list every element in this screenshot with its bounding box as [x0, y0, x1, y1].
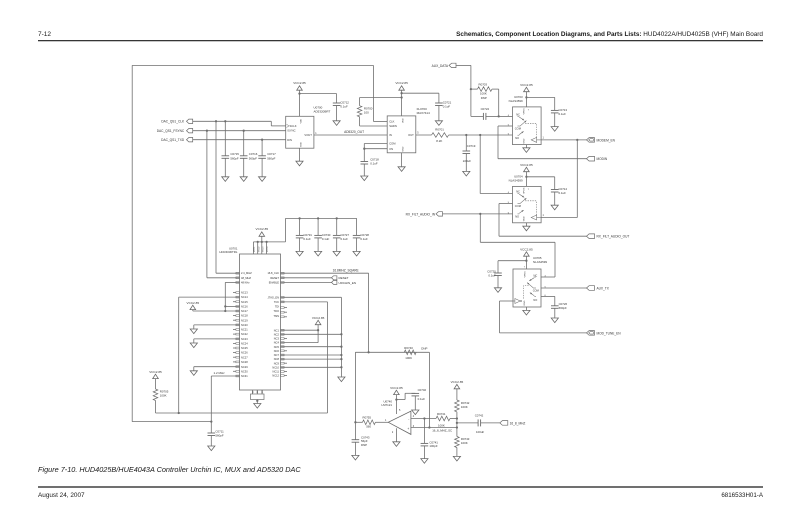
svg-text:48 KHz: 48 KHz [241, 280, 250, 284]
svg-text:GND: GND [524, 138, 526, 143]
ground under U0705 [525, 307, 527, 310]
svg-text:G2: G2 [257, 391, 259, 394]
ground under C0731 [296, 251, 303, 256]
svg-text:LM7121: LM7121 [382, 403, 393, 407]
svg-text:100uF: 100uF [476, 430, 484, 434]
connector RX_FILT_AUDIO_OUT [587, 234, 595, 239]
wire RX audio to U0705 NC [479, 214, 481, 242]
pin pads right column U0701 [281, 272, 284, 274]
capacitor C0711 [208, 432, 216, 434]
ground under C0726 [551, 318, 558, 323]
resistor R0700 [360, 97, 402, 99]
connector RESET [281, 277, 332, 279]
svg-text:C0740: C0740 [418, 388, 427, 392]
wire VCC bus over U0701 [253, 241, 285, 243]
ground under U0740 [395, 428, 397, 442]
svg-text:VCC2.85: VCC2.85 [256, 227, 269, 231]
wire feedback left leg [354, 352, 356, 422]
header rule [38, 40, 763, 42]
wire VCC branch to C0721 [402, 92, 439, 94]
svg-text:DIN: DIN [287, 138, 292, 142]
power VCC2.85 for U0705 [524, 252, 530, 256]
svg-text:VCC2.85: VCC2.85 [520, 83, 533, 87]
svg-text:TMS: TMS [274, 314, 280, 318]
svg-text:100K: 100K [461, 405, 468, 409]
svg-text:Figure 7-10. HUD4025B/HUE4043A: Figure 7-10. HUD4025B/HUE4043A Controlle… [38, 465, 301, 474]
svg-text:NC6: NC6 [274, 349, 280, 353]
svg-text:16.8MHZ_SQARE: 16.8MHZ_SQARE [333, 269, 359, 273]
svg-text:RESET: RESET [270, 276, 279, 280]
svg-text:VCC2.85: VCC2.85 [312, 316, 325, 320]
svg-text:VCC2.85: VCC2.85 [149, 370, 162, 374]
svg-text:VCC3: VCC3 [262, 246, 264, 252]
svg-text:C0722: C0722 [481, 107, 490, 111]
svg-text:NC11: NC11 [273, 370, 280, 374]
wire VCC branch to C0714 [526, 176, 554, 178]
svg-text:NC18: NC18 [241, 314, 248, 318]
power VCC2.85 for U0740 [394, 390, 400, 394]
svg-text:NC10: NC10 [272, 365, 279, 369]
wire NC20 no-connect arrow [194, 324, 240, 326]
svg-text:AD5320_OUT: AD5320_OUT [344, 130, 364, 134]
svg-text:G1: G1 [253, 391, 255, 394]
svg-text:R0741: R0741 [437, 412, 446, 416]
svg-text:VPOS: VPOS [524, 187, 526, 194]
svg-text:Schematics, Component Location: Schematics, Component Location Diagrams,… [456, 31, 763, 38]
svg-text:+: + [407, 427, 409, 431]
svg-text:HCR4030TRL: HCR4030TRL [219, 250, 238, 254]
svg-text:C0717: C0717 [267, 152, 276, 156]
capacitor C0740 [396, 399, 405, 401]
wire pullup rail [156, 412, 328, 414]
svg-text:AUX_DATA: AUX_DATA [432, 64, 449, 68]
svg-text:VDD: VDD [403, 118, 405, 123]
ground under C0715 [222, 177, 229, 182]
svg-text:R0740: R0740 [404, 346, 413, 350]
svg-text:NC9: NC9 [274, 361, 280, 365]
wire U0704 output up to MODEM_EN net [541, 217, 577, 219]
svg-text:NC4: NC4 [274, 341, 280, 345]
svg-text:NC27: NC27 [241, 355, 248, 359]
wire DAC_QS1_TXD row [193, 139, 286, 141]
svg-text:NC7: NC7 [274, 353, 280, 357]
svg-text:NO: NO [515, 136, 519, 140]
svg-text:100pF: 100pF [429, 444, 437, 448]
wire 16.8MHZ_SQARE drop [368, 273, 370, 352]
svg-text:NC28: NC28 [241, 360, 248, 364]
wire NC2 to bus [281, 333, 342, 335]
svg-text:0.1uF: 0.1uF [559, 112, 567, 116]
wire VCC branch to C0720 [498, 260, 526, 262]
svg-text:8.2K: 8.2K [436, 139, 442, 143]
ground under FL0700 [401, 153, 403, 167]
svg-text:16.8_CLK: 16.8_CLK [267, 271, 279, 275]
capacitor C0718 on COM/OS [364, 143, 387, 145]
svg-text:NC25: NC25 [241, 346, 248, 350]
capacitor C0715 [224, 121, 226, 156]
svg-text:560pF: 560pF [230, 157, 238, 161]
power VCC2.85 for FL0700 [399, 86, 405, 90]
svg-text:VDD: VDD [301, 118, 303, 123]
capacitor C0719 [465, 135, 467, 151]
capacitor C0728 [356, 218, 358, 235]
svg-text:R0703: R0703 [479, 83, 488, 87]
wire JTAG_EN to NC bus [281, 296, 342, 298]
svg-text:OUT: OUT [408, 133, 414, 137]
wire clock into CLK pin [372, 65, 374, 121]
wire DAC_QS1_CLK row [193, 120, 272, 122]
svg-text:NC16: NC16 [241, 305, 248, 309]
wire AD5320_OUT net [314, 134, 387, 136]
svg-text:C0719: C0719 [467, 144, 476, 148]
svg-text:16_8_MHZ: 16_8_MHZ [510, 421, 526, 425]
svg-text:NC30: NC30 [241, 369, 248, 373]
svg-text:NC26: NC26 [241, 351, 248, 355]
svg-text:COM: COM [515, 127, 521, 131]
svg-text:NC3: NC3 [274, 337, 280, 341]
wire U0704 COM loop to RX_FILT_AUDIO_OUT [499, 203, 513, 205]
wire R0700 to SHDN [360, 125, 388, 127]
connector MODEM_EN [587, 138, 595, 143]
node R0755 input [354, 421, 356, 423]
wire DAC_QS1_FSYNC row [193, 130, 286, 132]
svg-text:VPOS: VPOS [524, 108, 526, 115]
svg-text:0.1uF: 0.1uF [322, 237, 330, 241]
svg-text:TCK: TCK [274, 300, 279, 304]
pin pads left column U0701 [236, 272, 239, 274]
svg-text:DAC_QS1_TXD: DAC_QS1_TXD [161, 138, 185, 142]
wire SCLK jog [270, 121, 272, 126]
wire VCC branch to C0712 [300, 93, 337, 95]
power VCC2.85 at R0705 [153, 374, 159, 378]
ground under C0716 [240, 177, 247, 182]
svg-text:MAX7414: MAX7414 [417, 111, 431, 115]
capacitor C0743 [354, 422, 356, 439]
wire NC8 to bus [281, 358, 342, 360]
svg-text:2.4_MHZ: 2.4_MHZ [241, 271, 252, 275]
svg-text:NLAS4599: NLAS4599 [509, 99, 523, 103]
resistor R0741 [436, 416, 450, 421]
wire CLK drop to 2.4_MHZ pin [215, 121, 217, 273]
power VCC2.85 for U0704 [524, 167, 530, 171]
power VCC2.85 at NC1 [315, 320, 321, 324]
svg-text:7-12: 7-12 [38, 31, 51, 38]
wire NC10 to bus [281, 366, 342, 368]
svg-text:560pF: 560pF [215, 433, 223, 437]
connector URCHIN_EN [281, 281, 332, 283]
svg-text:NC13: NC13 [241, 291, 248, 295]
wire NC31 1.2MHz to C0711 [211, 375, 239, 377]
svg-text:NC8: NC8 [274, 357, 280, 361]
svg-text:DNP: DNP [361, 443, 367, 447]
ground under C0721 [435, 121, 442, 126]
capacitor C0713 [551, 109, 559, 111]
svg-text:0.1uF: 0.1uF [443, 105, 451, 109]
capacitor C0726 on U0705 NO [541, 295, 555, 297]
connector MOD_TUNE_EN [587, 331, 595, 336]
svg-text:RX_FILT_AUDIO_IN: RX_FILT_AUDIO_IN [406, 212, 436, 216]
svg-text:NC17: NC17 [241, 309, 248, 313]
ground under C0711 [208, 446, 215, 451]
svg-text:100K: 100K [160, 393, 167, 397]
wire AUX_DATA [456, 64, 471, 66]
wire NC14 to lower rail [179, 296, 240, 298]
svg-text:RX_FILT_AUDIO_OUT: RX_FILT_AUDIO_OUT [597, 235, 630, 239]
svg-text:G3: G3 [262, 391, 264, 394]
wire MODIN loop to U0703 COM [498, 158, 587, 160]
svg-text:VCC2.85: VCC2.85 [390, 386, 403, 390]
capacitor C0716 [243, 131, 245, 156]
svg-text:NC22: NC22 [241, 332, 248, 336]
wire TCK to pullup rail [281, 301, 328, 303]
capacitor C0731 [299, 218, 301, 235]
svg-text:560pF: 560pF [267, 157, 275, 161]
svg-text:0.1uF: 0.1uF [340, 105, 348, 109]
svg-text:DAC_QS1_CLK: DAC_QS1_CLK [161, 120, 185, 124]
svg-text:6816533H01-A: 6816533H01-A [721, 492, 763, 499]
svg-text:NC15: NC15 [241, 300, 248, 304]
capacitor C0714 [551, 189, 559, 191]
svg-text:560pF: 560pF [559, 306, 567, 310]
ground under C0740 [412, 410, 419, 415]
capacitor C0742 [457, 422, 478, 424]
wire op-amp minus input row [411, 418, 436, 420]
svg-text:VCC1: VCC1 [254, 246, 256, 252]
capacitor C0730 [317, 218, 319, 235]
ground under C0713 [551, 127, 558, 132]
resistor R0742 [455, 400, 460, 412]
ground under U0703 [525, 145, 527, 148]
svg-text:NC5: NC5 [274, 345, 280, 349]
resistor R0705 [153, 389, 158, 401]
svg-text:NO: NO [533, 298, 537, 302]
svg-text:NLAS4599: NLAS4599 [533, 260, 547, 264]
wire RX_FILT_AUDIO_IN to U0704 NO [443, 213, 513, 215]
wire C0722 to U0703 NC [499, 115, 513, 117]
svg-text:0.1uF: 0.1uF [559, 191, 567, 195]
svg-text:JTAG_EN: JTAG_EN [268, 295, 280, 299]
svg-text:OS: OS [389, 147, 393, 151]
svg-text:NC: NC [534, 273, 538, 277]
svg-text:220uF: 220uF [463, 159, 471, 163]
wire R0703 right leg [498, 89, 500, 116]
wire left border vertical [131, 65, 133, 421]
svg-text:VCC2.85: VCC2.85 [187, 301, 200, 305]
ground under C0718 [361, 176, 368, 181]
svg-text:-: - [408, 417, 409, 421]
op-amp FL0700 MAX7414 filter [387, 116, 416, 153]
wire NC7 to bus [281, 354, 342, 356]
svg-text:NC31: NC31 [241, 374, 248, 378]
svg-text:NC29: NC29 [241, 365, 248, 369]
svg-text:C0715: C0715 [230, 152, 239, 156]
svg-text:NC14: NC14 [241, 295, 248, 299]
svg-text:TDO: TDO [274, 309, 279, 313]
svg-text:MODIN: MODIN [597, 157, 608, 161]
capacitor C0717 [261, 140, 263, 156]
svg-text:MOD_TUNE_EN: MOD_TUNE_EN [597, 331, 622, 335]
svg-text:VCC2.85: VCC2.85 [395, 81, 408, 85]
svg-text:NC1: NC1 [274, 328, 280, 332]
wire op-amp plus input row [411, 427, 457, 429]
connector 16_8_MHZ [500, 421, 508, 426]
ground under C0743 [352, 455, 359, 460]
svg-text:SCLK: SCLK [290, 124, 297, 128]
svg-text:16_8_MHZ_SC: 16_8_MHZ_SC [432, 429, 452, 433]
svg-text:NC2: NC2 [274, 332, 280, 336]
resistor R0740 [404, 350, 416, 355]
svg-text:VCC2.85: VCC2.85 [293, 81, 306, 85]
svg-text:VCC2.85: VCC2.85 [451, 380, 464, 384]
pin stubs U0701 left [233, 292, 236, 294]
power VCC2.85 for U0701 top [259, 232, 265, 236]
svg-text:/SYNC: /SYNC [287, 129, 295, 133]
svg-text:48_MHZ: 48_MHZ [241, 276, 251, 280]
svg-text:NO: NO [515, 214, 519, 218]
wire NC1-NC4 tie [317, 330, 319, 342]
svg-text:0.1uF: 0.1uF [303, 237, 311, 241]
svg-text:0.1uF: 0.1uF [488, 273, 496, 277]
svg-text:NC19: NC19 [241, 318, 248, 322]
ground under U0704 [525, 223, 527, 226]
svg-text:RESET: RESET [339, 276, 349, 280]
svg-text:DNP: DNP [481, 96, 487, 100]
svg-text:VCC2.85: VCC2.85 [520, 247, 533, 251]
svg-text:GND: GND [301, 142, 303, 147]
svg-text:C0742: C0742 [475, 413, 484, 417]
ground under C0719 [463, 171, 470, 176]
wire VCC riser to decoupling rail [285, 218, 287, 242]
svg-text:GND: GND [403, 146, 405, 151]
wire output bus [456, 419, 458, 437]
ground under NC bus [338, 377, 345, 382]
resistor R0755 [355, 421, 362, 423]
svg-text:NC: NC [516, 112, 520, 116]
wire FSYNC drop to 48_MHZ pin [206, 131, 208, 278]
power VCC2.85 for U0700 [297, 86, 303, 90]
svg-text:560: 560 [366, 425, 371, 429]
wire U0703 output to MODEM_EN [541, 139, 586, 141]
ground under C0728 [353, 251, 360, 256]
svg-text:100K: 100K [461, 441, 468, 445]
svg-text:MODEM_EN: MODEM_EN [597, 138, 616, 142]
svg-text:VPOS: VPOS [524, 271, 526, 278]
capacitor C0721 [435, 102, 443, 104]
capacitor C0727 [336, 218, 338, 235]
svg-text:COM: COM [533, 289, 539, 293]
svg-text:R0755: R0755 [363, 416, 372, 420]
svg-text:SHDN: SHDN [389, 124, 397, 128]
wire feedback right leg [428, 352, 430, 427]
svg-text:C0716: C0716 [249, 152, 258, 156]
footer rule [38, 486, 763, 488]
connector MODIN [587, 156, 595, 161]
svg-text:NC21: NC21 [241, 328, 248, 332]
svg-text:COM: COM [515, 204, 521, 208]
resistor R0743 [455, 437, 460, 448]
wire VCC branch to C0713 [526, 96, 554, 98]
svg-text:NLAS4599: NLAS4599 [509, 178, 523, 182]
svg-text:100K: 100K [438, 423, 445, 427]
capacitor C0741 [423, 419, 425, 444]
wire NC1 row [281, 329, 319, 331]
svg-text:URCHIN_EN: URCHIN_EN [339, 281, 357, 285]
svg-text:AD5320BRT: AD5320BRT [314, 109, 331, 113]
svg-text:GND: GND [524, 300, 526, 305]
ground under U0700 [299, 148, 301, 161]
svg-text:1.2 MHz: 1.2 MHz [214, 371, 226, 375]
ground under C0727 [333, 251, 340, 256]
resistor R0701 [416, 134, 432, 136]
wire U0705 COM to AUX_TX [541, 287, 587, 289]
wire 48KHz tie to NC16/NC17 [225, 281, 239, 283]
svg-text:VOUT: VOUT [304, 133, 312, 137]
wire NC23 no-connect arrow [194, 338, 240, 340]
wire NC29 no-connect arrow [194, 366, 240, 368]
ground under C0714 [551, 205, 558, 210]
ground under C0741 [421, 459, 428, 464]
svg-text:VCC2.85: VCC2.85 [520, 163, 533, 167]
power VCC2.85 at R0742 [454, 384, 460, 388]
capacitor C0720 [494, 272, 502, 274]
svg-text:NC24: NC24 [241, 342, 248, 346]
svg-text:DNP: DNP [421, 347, 427, 351]
svg-text:TDI: TDI [275, 305, 279, 309]
svg-text:0.1uF: 0.1uF [341, 237, 349, 241]
svg-text:0.1uF: 0.1uF [370, 161, 378, 165]
svg-text:100K: 100K [405, 356, 412, 360]
svg-text:NC20: NC20 [241, 323, 248, 327]
svg-text:0.1uF: 0.1uF [418, 397, 426, 401]
wire U0705 enable to MOD_TUNE_EN [500, 300, 514, 302]
resistor R0703 [471, 88, 478, 90]
ground under C0712 [333, 121, 340, 126]
svg-text:100: 100 [364, 111, 369, 115]
svg-text:NC12: NC12 [272, 374, 279, 378]
wire NC5 to bus [281, 346, 342, 348]
wire NC16 row [225, 305, 239, 307]
ground under R0743 [453, 456, 460, 461]
svg-text:0.1uF: 0.1uF [360, 237, 368, 241]
wire bottom-left horizontal to C0711 node [132, 421, 211, 423]
ground under C0720 [494, 288, 501, 293]
wire R0701 to U0703 NO [449, 134, 513, 136]
svg-text:560pF: 560pF [249, 157, 257, 161]
svg-text:IN: IN [389, 133, 392, 137]
svg-text:DAC_QS1_FSYNC: DAC_QS1_FSYNC [157, 129, 185, 133]
pin stubs U0701 right [284, 338, 287, 340]
svg-text:NC: NC [516, 190, 520, 194]
wire 16.8MHZ_SQARE from U0701 [281, 272, 369, 274]
svg-text:GND: GND [524, 216, 526, 221]
connector AUX_TX [587, 286, 595, 291]
op-amp U0700 AD5320BRT DAC [286, 116, 314, 148]
ground pins under U0701 [252, 390, 254, 394]
svg-text:NC23: NC23 [241, 337, 248, 341]
ground under C0730 [315, 251, 322, 256]
svg-text:VCC4: VCC4 [267, 246, 269, 252]
capacitor C0712 [333, 102, 341, 104]
power VCC2.85 for U0703 [524, 87, 530, 91]
svg-text:August 24, 2007: August 24, 2007 [38, 492, 85, 499]
wire 16.8MHz top rail [132, 64, 373, 66]
ground under C0717 [259, 177, 266, 182]
svg-text:COM: COM [389, 142, 396, 146]
svg-text:R0701: R0701 [435, 128, 444, 132]
wire feedback top [355, 351, 429, 353]
wire AD5320 net to U0704 NC [479, 135, 481, 194]
svg-text:AUX_TX: AUX_TX [597, 286, 610, 290]
